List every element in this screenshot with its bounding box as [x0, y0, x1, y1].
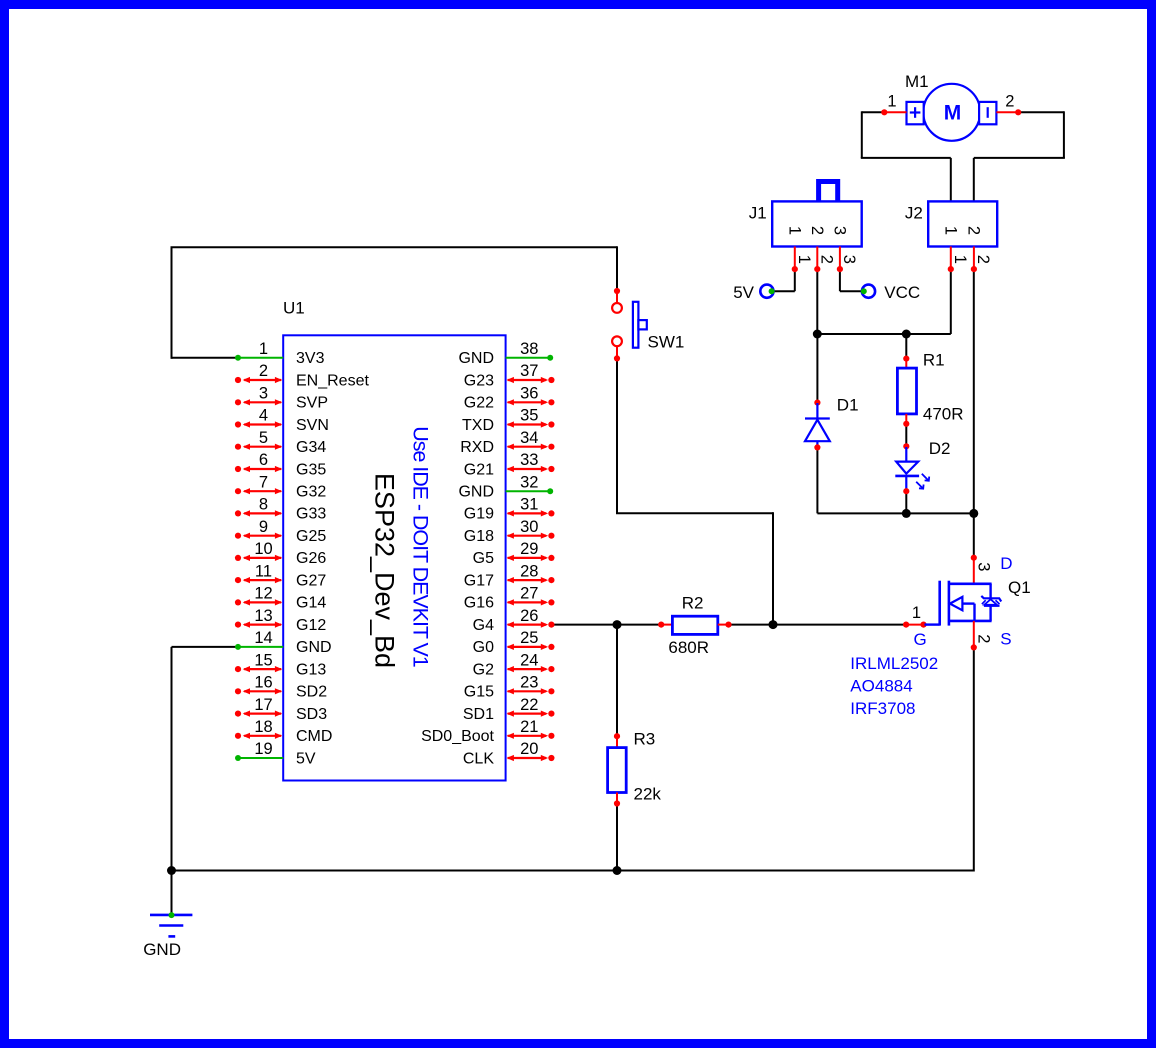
svg-text:470R: 470R: [923, 405, 964, 424]
pin 35 TXD arrow stub: [507, 421, 555, 427]
wire junction to R3 top: [616, 625, 618, 737]
resistor R1 top dot: [903, 356, 909, 362]
motor M1 minus sign: [987, 107, 989, 118]
svg-text:G25: G25: [296, 528, 326, 545]
svg-text:G35: G35: [296, 461, 326, 478]
svg-text:G12: G12: [296, 617, 326, 634]
wire M1 pin2 right: [1018, 111, 1064, 113]
svg-text:SVN: SVN: [296, 417, 329, 434]
junction gate row left: [613, 620, 622, 629]
transistor Q1 drain dot: [971, 555, 977, 561]
wire J2 pin1 down: [950, 269, 952, 334]
svg-text:29: 29: [520, 540, 538, 558]
svg-text:SVP: SVP: [296, 395, 328, 412]
svg-text:R1: R1: [923, 350, 945, 369]
svg-text:G21: G21: [464, 461, 494, 478]
svg-text:CLK: CLK: [463, 750, 494, 767]
svg-text:21: 21: [520, 718, 538, 736]
svg-text:5V: 5V: [733, 283, 754, 302]
wire R1 to D2: [905, 424, 907, 447]
svg-text:2: 2: [974, 634, 992, 643]
led D2 top lead: [905, 447, 907, 462]
wire M1 right loop horizontal: [974, 157, 1065, 159]
svg-text:2: 2: [974, 255, 992, 264]
wire M1 left loop to J2: [950, 158, 952, 202]
switch SW1 top dot: [614, 288, 620, 294]
svg-text:12: 12: [254, 585, 272, 603]
transistor Q1 channel bar: [948, 581, 951, 626]
resistor R3 bottom stub: [616, 793, 618, 804]
pin 19 5V power stub: [235, 755, 283, 761]
svg-text:1: 1: [887, 93, 896, 111]
svg-text:SD1: SD1: [463, 706, 494, 723]
svg-text:G16: G16: [464, 595, 494, 612]
svg-text:2: 2: [808, 226, 826, 235]
terminal VCC green dot: [861, 288, 867, 294]
wire SW1 bottom down: [616, 360, 618, 513]
svg-text:S: S: [1000, 629, 1011, 648]
wire top rail: [171, 246, 618, 248]
pin 13 G12 arrow stub: [235, 622, 282, 628]
svg-text:Use IDE - DOIT DEVKIT V1: Use IDE - DOIT DEVKIT V1: [409, 426, 433, 667]
svg-text:R3: R3: [634, 729, 656, 748]
switch SW1 bottom lead: [616, 347, 618, 357]
transistor Q1 drain bar: [949, 582, 992, 585]
svg-text:1: 1: [951, 255, 969, 264]
pin 3 SVP arrow stub: [235, 399, 282, 405]
pin 11 G27 arrow stub: [235, 577, 282, 583]
svg-text:G34: G34: [296, 439, 326, 456]
pin 2 EN_Reset arrow stub: [235, 377, 282, 383]
svg-text:16: 16: [254, 674, 272, 692]
pin 37 G23 arrow stub: [507, 377, 555, 383]
pin 33 G21 arrow stub: [507, 466, 555, 472]
svg-text:CMD: CMD: [296, 728, 332, 745]
wire J1 pin1 to 5V: [774, 290, 795, 292]
wire G4 pin26 to junction: [553, 624, 661, 626]
wire J1 pin3 down: [839, 269, 841, 291]
J2 pin 2 stub: [973, 247, 975, 268]
svg-text:17: 17: [254, 696, 272, 714]
wire J1 pin2 down: [816, 269, 818, 334]
svg-text:35: 35: [520, 407, 538, 425]
svg-text:3V3: 3V3: [296, 350, 325, 367]
wire down to SW1: [616, 246, 618, 290]
transistor Q1 drain stub: [973, 558, 975, 583]
wire 3V3 pin1 to left riser: [172, 357, 239, 359]
svg-text:23: 23: [520, 674, 538, 692]
svg-text:G4: G4: [473, 617, 494, 634]
transistor Q1 body arrow: [950, 597, 963, 610]
resistor R1 bottom dot: [903, 421, 909, 427]
wire R3 bottom to ground rail: [616, 804, 618, 871]
svg-text:G0: G0: [473, 639, 494, 656]
svg-text:G19: G19: [464, 506, 494, 523]
svg-text:1: 1: [912, 604, 921, 622]
pin 4 SVN arrow stub: [235, 421, 282, 427]
svg-text:SD0_Boot: SD0_Boot: [421, 728, 494, 745]
svg-text:8: 8: [259, 496, 268, 514]
svg-text:1: 1: [941, 226, 959, 235]
svg-text:38: 38: [520, 340, 538, 358]
transistor Q1 source dot: [971, 644, 977, 650]
pin 36 G22 arrow stub: [507, 399, 555, 405]
svg-text:1: 1: [259, 340, 268, 358]
svg-text:G23: G23: [464, 372, 494, 389]
wire R1 top stub: [905, 334, 907, 359]
junction Q1 drain node: [969, 509, 978, 518]
wire J1pin2-J2pin1 link: [817, 333, 951, 335]
svg-text:IRF3708: IRF3708: [850, 699, 915, 718]
svg-text:Q1: Q1: [1008, 578, 1031, 597]
svg-text:R2: R2: [682, 593, 704, 612]
diode D1 top lead: [816, 403, 818, 418]
resistor R2 right dot: [725, 622, 731, 628]
svg-text:G22: G22: [464, 395, 494, 412]
junction D2 bottom node: [902, 509, 911, 518]
switch SW1 actuator bar: [633, 302, 639, 348]
resistor R2 left dot: [658, 622, 664, 628]
svg-text:10: 10: [254, 540, 272, 558]
transistor Q1 body diode bottom lead: [989, 606, 991, 621]
resistor R2 body: [672, 616, 717, 634]
pin 17 SD3 arrow stub: [235, 711, 282, 717]
svg-text:11: 11: [255, 562, 272, 580]
pin 28 G17 arrow stub: [507, 577, 555, 583]
transistor Q1 body diode triangle: [984, 599, 996, 604]
svg-text:G32: G32: [296, 484, 326, 501]
ground green dot: [169, 912, 175, 918]
pin 22 SD1 arrow stub: [507, 711, 555, 717]
resistor R2 right stub: [718, 624, 729, 626]
svg-text:U1: U1: [283, 299, 305, 318]
wire D1 bottom drop: [816, 449, 818, 514]
wire ground rail: [172, 870, 974, 872]
resistor R1 body: [897, 368, 916, 414]
svg-text:14: 14: [254, 629, 272, 647]
wire left drop to ground rail: [171, 647, 173, 871]
pin 21 SD0_Boot arrow stub: [507, 733, 555, 739]
pin 5 G34 arrow stub: [235, 444, 282, 450]
svg-text:G5: G5: [473, 550, 494, 567]
resistor R3 top stub: [616, 736, 618, 747]
svg-text:VCC: VCC: [884, 283, 920, 302]
svg-text:31: 31: [520, 496, 538, 514]
svg-text:G2: G2: [473, 661, 494, 678]
svg-text:G13: G13: [296, 661, 326, 678]
svg-text:GND: GND: [143, 940, 181, 959]
pin 15 G13 arrow stub: [235, 666, 282, 672]
svg-text:4: 4: [259, 407, 268, 425]
terminal 5V circle: [760, 285, 773, 298]
svg-text:5V: 5V: [296, 750, 316, 767]
motor M1 left brush box: [907, 102, 924, 124]
motor M1 circle: [923, 84, 980, 141]
svg-text:13: 13: [254, 607, 272, 625]
led D2 triangle: [896, 462, 918, 474]
svg-text:M1: M1: [905, 72, 929, 91]
svg-text:34: 34: [520, 429, 538, 447]
svg-text:D: D: [1000, 554, 1012, 573]
J1 pin 1 stub: [794, 247, 796, 268]
led D2 arrow 2: [916, 482, 923, 489]
pin 23 G15 arrow stub: [507, 688, 555, 694]
svg-text:SW1: SW1: [648, 333, 685, 352]
led D2 cathode bar: [895, 475, 919, 478]
switch SW1 bottom dot: [614, 355, 620, 361]
svg-text:37: 37: [520, 362, 538, 380]
wire M1 right loop down: [1063, 111, 1065, 158]
wire drop to gate row: [772, 512, 774, 624]
pin 27 G16 arrow stub: [507, 599, 555, 605]
svg-text:3: 3: [840, 255, 858, 264]
pin 14 GND power stub: [235, 644, 283, 650]
svg-text:2: 2: [259, 362, 268, 380]
junction R1 top node: [902, 330, 911, 339]
svg-text:RXD: RXD: [460, 439, 494, 456]
pin 10 G26 arrow stub: [235, 555, 282, 561]
svg-text:J1: J1: [749, 204, 767, 223]
pin 32 GND power stub: [506, 488, 554, 494]
svg-text:G18: G18: [464, 528, 494, 545]
svg-text:GND: GND: [458, 484, 494, 501]
wire M1 left loop down: [861, 111, 863, 158]
motor M1 plus sign: [910, 111, 921, 113]
pin 30 G18 arrow stub: [507, 533, 555, 539]
svg-text:SD3: SD3: [296, 706, 327, 723]
connector J2 body: [928, 201, 997, 246]
svg-text:25: 25: [520, 629, 538, 647]
diode D1 triangle: [805, 420, 830, 442]
svg-text:G14: G14: [296, 595, 326, 612]
svg-text:GND: GND: [458, 350, 494, 367]
transistor Q1 gate bar: [938, 581, 941, 626]
svg-text:M: M: [944, 101, 962, 124]
led D2 top dot: [903, 443, 909, 449]
J1 pin 2 stub: [816, 247, 818, 268]
ground symbol: [150, 914, 192, 917]
svg-text:G26: G26: [296, 550, 326, 567]
switch SW1 bottom contact circle: [612, 336, 622, 346]
wire gate junction to Q1 gate: [773, 624, 905, 626]
svg-text:G27: G27: [296, 572, 326, 589]
transistor Q1 gate lead: [925, 623, 940, 625]
led D2 arrow 1: [922, 474, 929, 481]
svg-text:33: 33: [520, 451, 538, 469]
resistor R1 top stub: [905, 359, 907, 368]
svg-text:AO4884: AO4884: [850, 677, 912, 696]
wire Q1 source down: [973, 648, 975, 872]
resistor R3 body: [608, 748, 627, 793]
svg-text:1: 1: [785, 226, 803, 235]
svg-text:3: 3: [974, 562, 992, 571]
svg-text:7: 7: [259, 473, 268, 491]
wire D2 to rail: [905, 491, 907, 513]
connector J1 top tab: [819, 182, 838, 202]
pin 20 CLK arrow stub: [507, 755, 555, 761]
svg-text:22k: 22k: [634, 785, 662, 804]
wire M1 pin1 left: [862, 111, 885, 113]
wire GND pin14 horizontal: [172, 646, 238, 648]
terminal VCC circle: [862, 285, 875, 298]
svg-text:9: 9: [259, 518, 268, 536]
ic U1 body ESP32_Dev_Bd: [283, 335, 505, 780]
svg-text:680R: 680R: [668, 638, 709, 657]
svg-text:24: 24: [520, 651, 538, 669]
svg-text:G33: G33: [296, 506, 326, 523]
diode D1 cathode bar: [805, 417, 830, 419]
svg-text:20: 20: [520, 740, 538, 758]
switch SW1 top lead: [616, 292, 618, 302]
svg-text:J2: J2: [905, 204, 923, 223]
pin 34 RXD arrow stub: [507, 444, 555, 450]
J2 pin 1 stub: [950, 247, 952, 268]
svg-text:36: 36: [520, 384, 538, 402]
wire SW1 to gate-row: [616, 512, 773, 514]
svg-text:27: 27: [520, 585, 538, 603]
svg-text:26: 26: [520, 607, 538, 625]
resistor R2 left stub: [661, 624, 672, 626]
svg-text:ESP32_Dev_Bd: ESP32_Dev_Bd: [369, 473, 399, 668]
svg-text:30: 30: [520, 518, 538, 536]
svg-text:3: 3: [259, 384, 268, 402]
svg-text:6: 6: [259, 451, 268, 469]
pin 16 SD2 arrow stub: [235, 688, 282, 694]
svg-text:15: 15: [254, 651, 272, 669]
wire M1 left loop horizontal: [861, 157, 951, 159]
wire ground symbol drop: [171, 871, 173, 916]
svg-text:19: 19: [254, 740, 272, 758]
motor M1 pin 2 stub: [996, 111, 1017, 113]
wire left riser up: [171, 247, 173, 358]
resistor R3 bottom dot: [614, 800, 620, 806]
svg-text:G17: G17: [464, 572, 494, 589]
transistor Q1 body diode top lead: [989, 584, 991, 598]
junction ground rail left: [167, 866, 176, 875]
led D2 bottom dot: [903, 488, 909, 494]
transistor Q1 source stub: [973, 621, 975, 646]
motor M1 right brush box: [979, 102, 996, 124]
wire R2 right to gate junction: [729, 624, 773, 626]
transistor Q1 body diode anode bar: [984, 605, 1000, 607]
wire Q1 drain up: [973, 513, 975, 557]
J1 pin 3 stub: [839, 247, 841, 268]
switch SW1 top contact circle: [612, 303, 622, 313]
connector J1 body: [772, 201, 862, 246]
diode D1 top dot: [814, 400, 820, 406]
wire J1pin2 junction to D1: [816, 334, 818, 403]
pin 29 G5 arrow stub: [507, 555, 555, 561]
svg-text:2: 2: [818, 255, 836, 264]
pin 38 GND power stub: [506, 355, 554, 361]
svg-text:GND: GND: [296, 639, 332, 656]
svg-text:G15: G15: [464, 684, 494, 701]
pin 25 G0 arrow stub: [507, 644, 555, 650]
svg-text:22: 22: [520, 696, 538, 714]
transistor Q1 gate dots and stub: [903, 622, 909, 628]
junction J1 pin2 node: [813, 330, 822, 339]
pin 7 G32 arrow stub: [235, 488, 282, 494]
resistor R1 bottom stub: [905, 414, 907, 423]
pin 18 CMD arrow stub: [235, 733, 282, 739]
svg-text:IRLML2502: IRLML2502: [850, 654, 938, 673]
motor M1 pin 1 stub: [881, 109, 887, 115]
svg-text:D2: D2: [929, 439, 951, 458]
diode D1 bottom lead: [816, 441, 818, 447]
transistor Q1 body diode ticks: [982, 600, 986, 604]
svg-text:G: G: [914, 630, 927, 649]
transistor Q1 body diode cathode: [981, 596, 1001, 602]
terminal 5V green dot: [769, 288, 775, 294]
pin 6 G35 arrow stub: [235, 466, 282, 472]
svg-text:28: 28: [520, 562, 538, 580]
svg-text:2: 2: [965, 226, 983, 235]
svg-text:5: 5: [259, 429, 268, 447]
svg-text:32: 32: [520, 473, 538, 491]
svg-text:EN_Reset: EN_Reset: [296, 372, 369, 389]
svg-text:SD2: SD2: [296, 684, 327, 701]
pin 26 G4 arrow stub: [507, 622, 555, 628]
pin 8 G33 arrow stub: [235, 510, 282, 516]
svg-text:1: 1: [795, 255, 813, 264]
pin 24 G2 arrow stub: [507, 666, 555, 672]
pin 9 G25 arrow stub: [235, 533, 282, 539]
junction ground rail R3: [613, 866, 622, 875]
wire J1 pin3 to VCC: [840, 290, 862, 292]
diode D1 bottom dot: [814, 444, 820, 450]
svg-text:3: 3: [831, 226, 849, 235]
wire J2 pin2 down: [973, 269, 975, 514]
transistor Q1 body lead: [962, 602, 974, 604]
wire J1 pin1 down: [794, 269, 796, 291]
pin 12 G14 arrow stub: [235, 599, 282, 605]
wire M1 right loop to J2: [973, 158, 975, 202]
svg-text:TXD: TXD: [462, 417, 494, 434]
transistor Q1 source bar: [949, 620, 992, 623]
led D2 bottom lead: [905, 477, 907, 490]
pin 1 3V3 power stub: [235, 355, 283, 361]
svg-text:18: 18: [254, 718, 272, 736]
junction gate row right: [769, 620, 778, 629]
switch SW1 actuator tab: [638, 320, 646, 329]
pin 31 G19 arrow stub: [507, 510, 555, 516]
svg-text:D1: D1: [837, 396, 859, 415]
resistor R3 top dot: [614, 733, 620, 739]
wire D1 rail: [817, 512, 973, 514]
svg-text:2: 2: [1005, 93, 1014, 111]
